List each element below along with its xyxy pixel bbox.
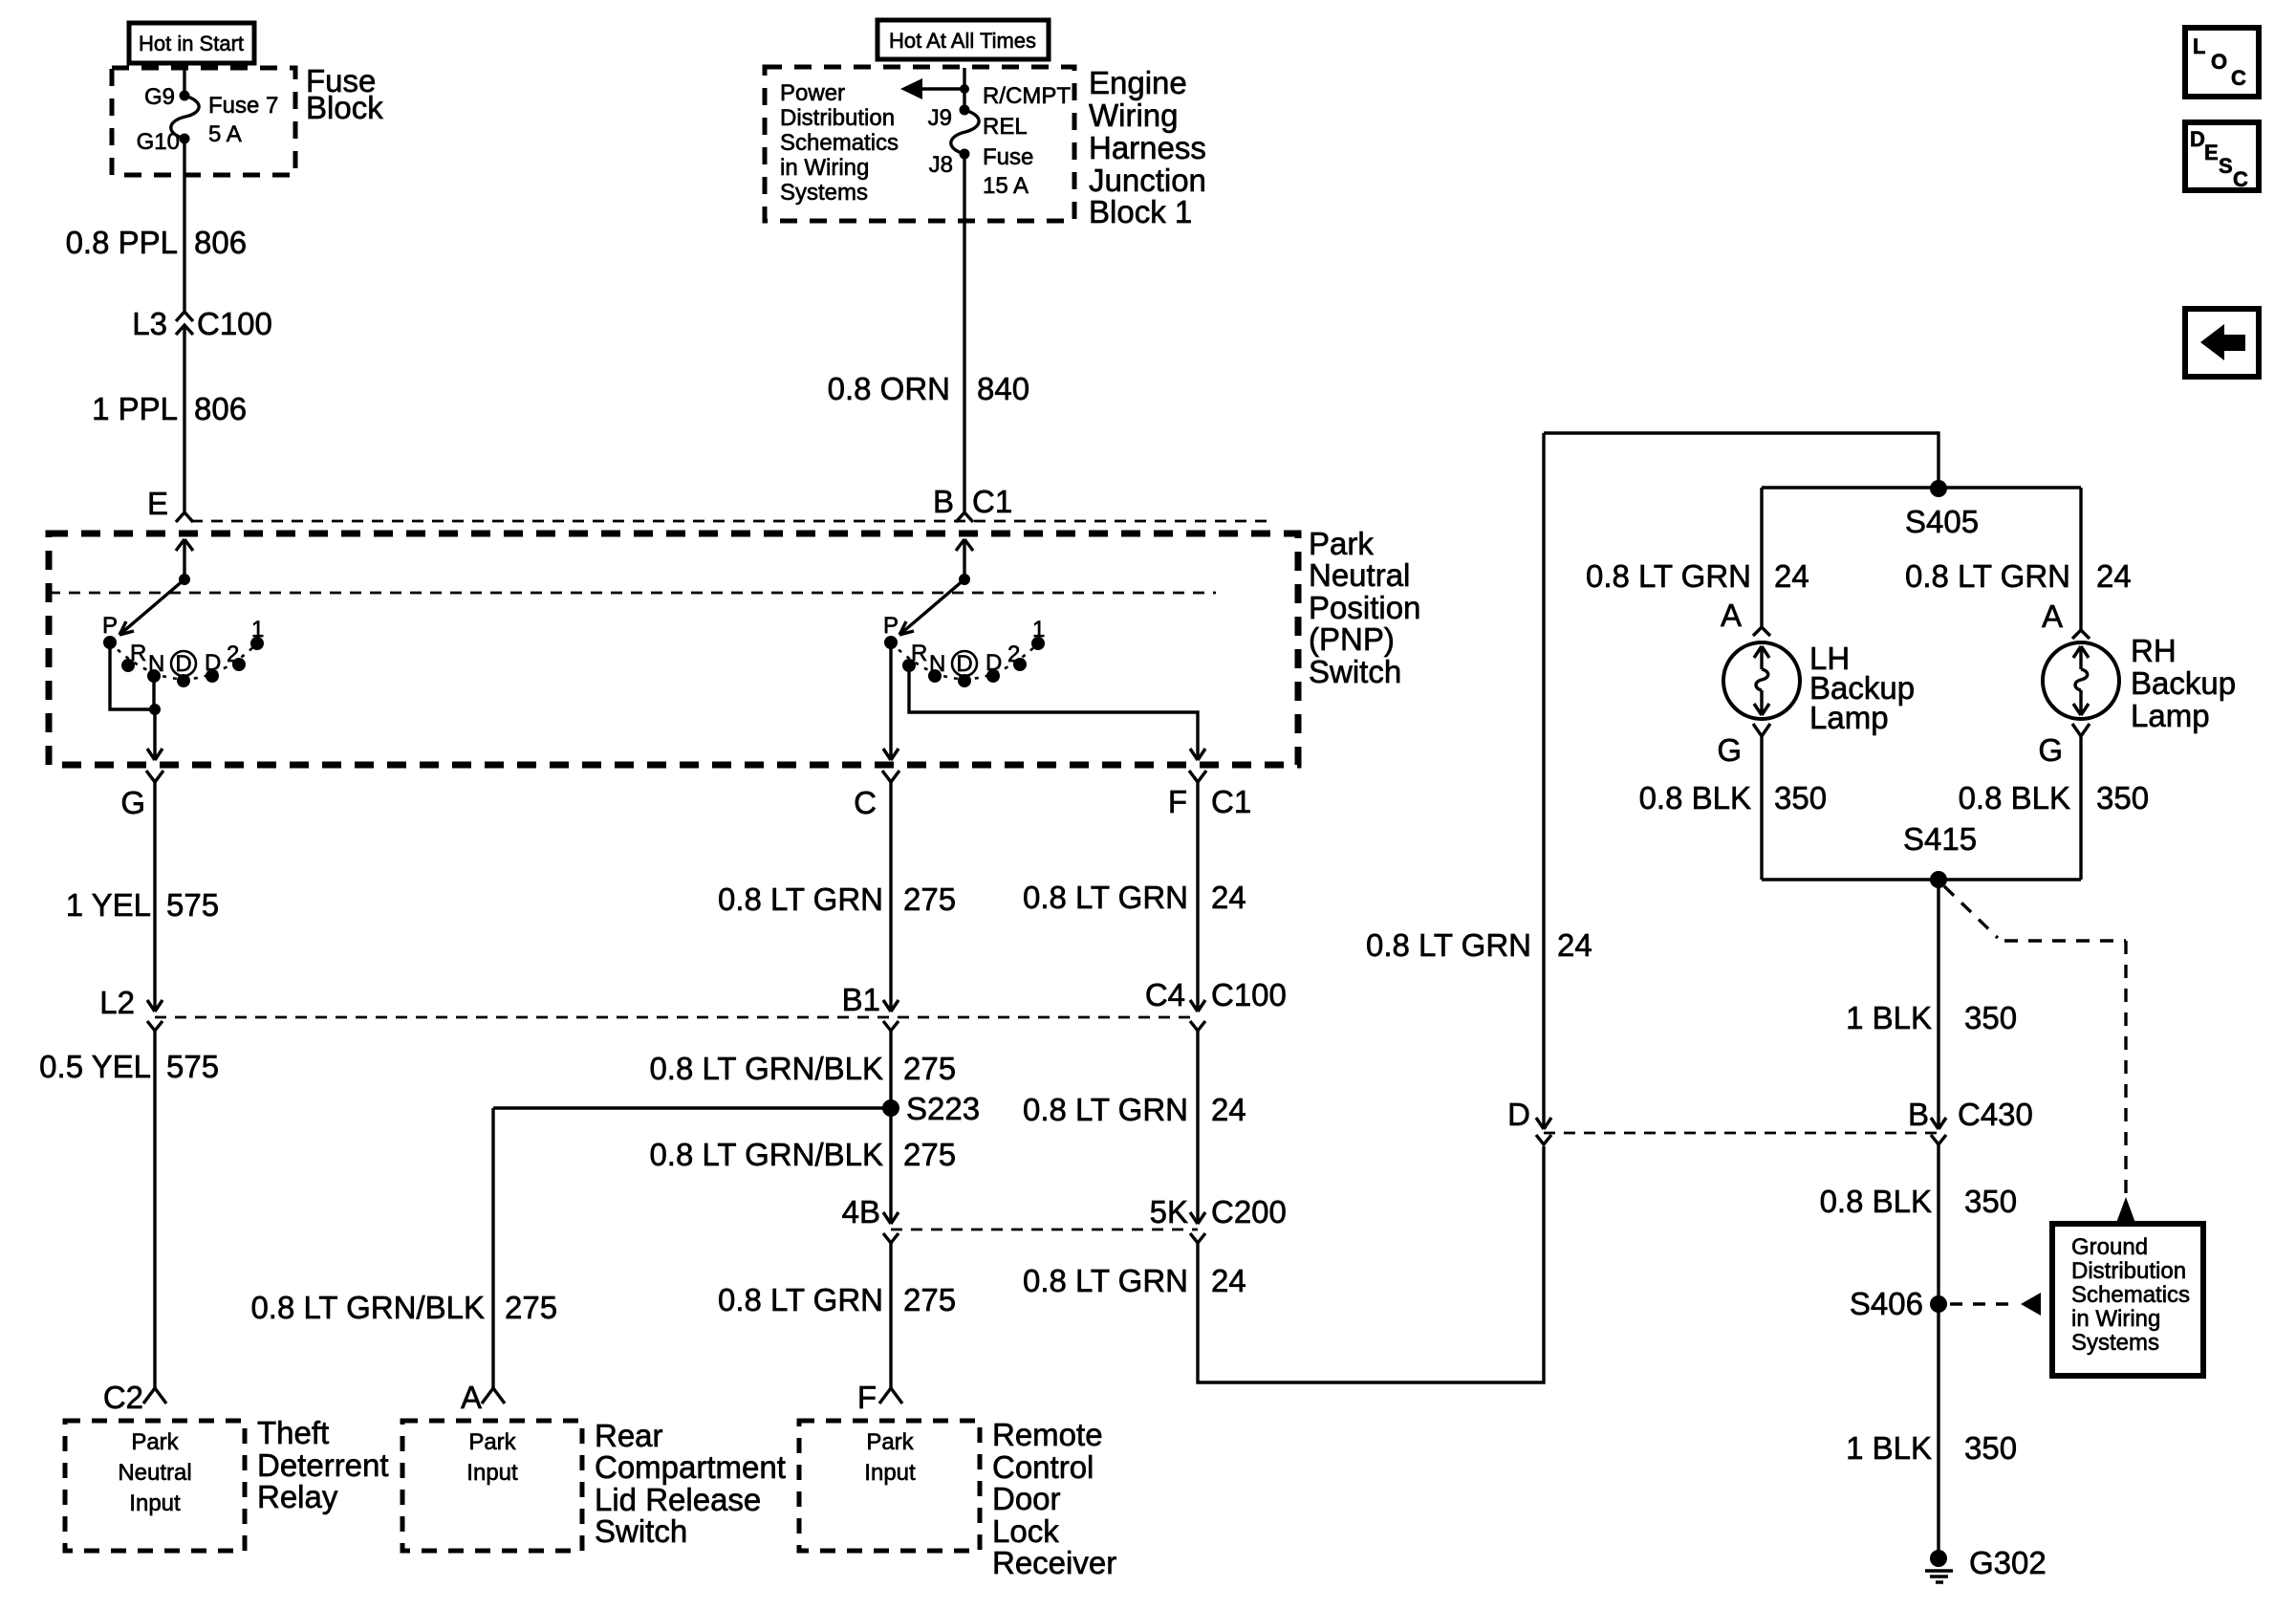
svg-text:D: D <box>956 651 972 677</box>
svg-text:in Wiring: in Wiring <box>780 155 869 181</box>
svg-text:24: 24 <box>1557 927 1592 963</box>
switch 2 terminal R <box>902 641 927 672</box>
wire label 0.8 BLK 350 (RH) <box>1959 780 2149 816</box>
svg-text:G10: G10 <box>137 129 180 155</box>
svg-text:Park: Park <box>1309 526 1374 561</box>
svg-text:L2: L2 <box>99 985 135 1020</box>
svg-text:Backup: Backup <box>2131 665 2236 701</box>
svg-text:L3: L3 <box>132 306 167 341</box>
svg-text:Deterrent: Deterrent <box>257 1447 389 1483</box>
svg-text:0.8 BLK: 0.8 BLK <box>1959 780 2070 816</box>
splice S406 <box>1850 1286 1947 1321</box>
splice S405 <box>1905 480 1979 539</box>
component label Engine Wiring Harness Junction Block 1 <box>1089 65 1206 229</box>
wire lamp branch top bus <box>1762 486 2081 489</box>
svg-text:Distribution: Distribution <box>780 105 895 131</box>
svg-text:R: R <box>130 641 146 666</box>
connector C100 terminal L2 label and chevron <box>99 985 162 1031</box>
svg-text:350: 350 <box>1964 1000 2017 1035</box>
svg-text:5K: 5K <box>1150 1194 1188 1229</box>
RH backup lamp <box>2043 642 2119 719</box>
wire P2 down with arrow to terminal C <box>883 642 899 760</box>
pin function label Park Input <box>466 1429 518 1486</box>
svg-text:0.8 ORN: 0.8 ORN <box>828 371 950 406</box>
connector C430 terminal B label and chevron <box>1908 1097 2033 1144</box>
svg-text:S406: S406 <box>1850 1286 1923 1321</box>
wire label 0.8 ORN 840 <box>828 371 1029 406</box>
switch 1 terminal arc <box>110 642 257 679</box>
svg-text:C430: C430 <box>1958 1097 2033 1132</box>
svg-text:0.8 BLK: 0.8 BLK <box>1820 1184 1932 1219</box>
svg-text:C1: C1 <box>972 484 1012 519</box>
svg-text:350: 350 <box>1964 1184 2017 1219</box>
terminal C chevron below PNP box <box>854 771 899 820</box>
fuse R/CMPT REL element (S-curve) <box>951 110 979 154</box>
terminal G10 <box>137 129 190 155</box>
fuse value label Fuse 7 / 5 A <box>208 93 278 147</box>
theft deterrent relay dashed box <box>65 1421 245 1551</box>
svg-text:Lock: Lock <box>992 1513 1059 1549</box>
terminal G chevron below PNP box <box>120 771 163 820</box>
wire label 0.8 LT GRN 24 (RH) <box>1905 558 2132 594</box>
note text Power Distribution Schematics in Wiring Systems <box>780 80 899 206</box>
wire label 1 PPL 806 <box>92 391 247 426</box>
svg-text:Schematics: Schematics <box>780 130 899 156</box>
dashed reference link from S406 to ground distribution note <box>1950 1293 2041 1316</box>
svg-text:Ground: Ground <box>2071 1234 2148 1260</box>
svg-text:0.5 YEL: 0.5 YEL <box>39 1049 151 1084</box>
svg-text:Input: Input <box>129 1490 181 1516</box>
svg-text:1: 1 <box>1032 617 1045 642</box>
wire RH lamp down to splice S415 <box>2079 736 2082 880</box>
svg-text:C1: C1 <box>1211 784 1251 819</box>
switch 2 terminal P <box>883 613 899 649</box>
switch 2 terminal arc <box>891 642 1038 679</box>
svg-text:0.8 LT GRN: 0.8 LT GRN <box>718 1282 883 1317</box>
wire label 1 BLK 350 <box>1846 1430 2017 1466</box>
svg-text:REL: REL <box>983 114 1028 140</box>
svg-text:575: 575 <box>166 1049 219 1084</box>
wire label 0.8 LT GRN/BLK 275 <box>250 1290 557 1325</box>
svg-text:G: G <box>2038 732 2063 768</box>
junction node of switch 1 output <box>149 704 161 715</box>
svg-text:2: 2 <box>1007 642 1020 667</box>
connector C100 dashed boundary line (L2 / B1 / C4) <box>155 1016 1198 1019</box>
svg-text:D: D <box>175 651 191 677</box>
wire C4 down to connector C200 terminal 5K <box>1190 1031 1205 1224</box>
svg-text:Systems: Systems <box>2071 1330 2159 1356</box>
svg-text:Neutral: Neutral <box>118 1460 191 1486</box>
wire left branch down to LH lamp terminal A <box>1760 488 1763 627</box>
svg-text:C: C <box>2231 66 2246 90</box>
RH lamp terminal A chevron <box>2042 598 2090 639</box>
wire 4B down to remote control door lock receiver <box>889 1243 892 1388</box>
component label Remote Control Door Lock Receiver <box>992 1417 1116 1580</box>
svg-text:Hot At All Times: Hot At All Times <box>889 29 1036 53</box>
component label Rear Compartment Lid Release Switch <box>595 1418 786 1549</box>
svg-text:Junction: Junction <box>1089 163 1206 198</box>
wire R2 down, right and down with arrow to terminal F <box>909 665 1205 760</box>
svg-text:0.8 LT GRN/BLK: 0.8 LT GRN/BLK <box>649 1051 883 1086</box>
svg-text:E: E <box>147 486 168 521</box>
switch 2 terminal 1 <box>1031 617 1045 650</box>
svg-text:0.8 LT GRN: 0.8 LT GRN <box>1586 558 1751 594</box>
terminal F chevron at door lock receiver <box>857 1380 902 1415</box>
wire 5K down, right along bottom to backup lamp feed <box>1198 1146 1544 1382</box>
component label Fuse Block <box>306 63 383 125</box>
wire label 0.8 LT GRN 275 <box>718 881 956 917</box>
svg-text:Harness: Harness <box>1089 130 1206 165</box>
switch 2 terminal D <box>986 650 1002 683</box>
wire label 0.8 BLK 350 <box>1820 1184 2017 1219</box>
svg-text:N: N <box>148 651 164 677</box>
svg-text:N: N <box>929 651 945 677</box>
connector C200 dashed boundary line (4B / 5K) <box>891 1229 1198 1231</box>
svg-text:0.8 LT GRN/BLK: 0.8 LT GRN/BLK <box>649 1137 883 1172</box>
svg-text:C: C <box>854 785 877 820</box>
svg-text:0.8 LT GRN: 0.8 LT GRN <box>718 881 883 917</box>
svg-text:L: L <box>2193 34 2205 58</box>
svg-text:F: F <box>1168 784 1187 819</box>
svg-text:E: E <box>2204 141 2219 164</box>
switch 1 wiper arm (to P) <box>119 579 184 635</box>
svg-text:Neutral: Neutral <box>1309 557 1410 593</box>
svg-text:G9: G9 <box>144 84 175 110</box>
wire label 0.8 LT GRN 24 <box>1023 1092 1246 1127</box>
wire G down to connector C100 terminal L2 <box>147 782 162 1012</box>
connector C430 dashed boundary line (D / B) <box>1544 1132 1939 1135</box>
LH lamp terminal A chevron <box>1721 598 1770 636</box>
fuse value label R/CMPT REL Fuse 15 A <box>983 83 1071 199</box>
wire right branch down to RH lamp terminal A <box>2079 488 2082 630</box>
wire label 0.8 LT GRN 24 <box>1023 880 1246 915</box>
ground distribution note box <box>2052 1224 2203 1376</box>
svg-text:0.8 LT GRN: 0.8 LT GRN <box>1905 558 2070 594</box>
svg-text:O: O <box>2211 50 2227 74</box>
connector C100 terminal B1 label and chevron <box>842 982 899 1031</box>
svg-text:(PNP): (PNP) <box>1309 621 1395 657</box>
svg-text:F: F <box>857 1380 877 1415</box>
remote control door lock receiver dashed box <box>799 1421 980 1551</box>
svg-text:Door: Door <box>992 1481 1061 1516</box>
svg-text:Switch: Switch <box>595 1513 687 1549</box>
wire LH lamp down to splice S415 <box>1760 736 1763 880</box>
page icon back arrow <box>2185 309 2259 377</box>
svg-text:0.8 LT GRN: 0.8 LT GRN <box>1023 1092 1188 1127</box>
svg-text:C: C <box>2233 167 2248 191</box>
switch 1 terminal R <box>121 641 146 672</box>
svg-text:Systems: Systems <box>780 180 868 206</box>
wire label 0.8 LT GRN/BLK 275 <box>649 1137 956 1172</box>
svg-text:A: A <box>2042 598 2063 634</box>
wire B1 down to splice S223 <box>889 1031 892 1108</box>
PNP terminal E chevron <box>147 486 193 522</box>
component label LH Backup Lamp <box>1809 641 1915 735</box>
svg-text:Engine: Engine <box>1089 65 1187 100</box>
svg-text:Lamp: Lamp <box>2131 698 2210 733</box>
svg-text:15 A: 15 A <box>983 173 1029 199</box>
switch 1 terminal D <box>205 650 221 683</box>
connector C1 boundary dashed line <box>191 520 1267 523</box>
svg-text:2: 2 <box>227 642 239 667</box>
svg-text:806: 806 <box>194 225 247 260</box>
connector C100 terminal C4 label and chevron <box>1145 977 1287 1031</box>
svg-text:Park: Park <box>468 1429 516 1455</box>
svg-text:806: 806 <box>194 391 247 426</box>
connector C200 terminal 4B label and chevron <box>842 1194 899 1243</box>
svg-text:Distribution: Distribution <box>2071 1258 2186 1284</box>
wire label 0.8 LT GRN 24 <box>1023 1263 1246 1298</box>
svg-text:Hot in Start: Hot in Start <box>139 32 244 55</box>
svg-text:C200: C200 <box>1211 1194 1287 1229</box>
wire F down to connector C100 terminal C4 <box>1190 782 1205 1012</box>
svg-text:24: 24 <box>1211 880 1246 915</box>
wire switch 1 output down with arrow to terminal G <box>147 709 162 760</box>
svg-text:0.8 LT GRN: 0.8 LT GRN <box>1023 1263 1188 1298</box>
terminal F chevron below PNP box (connector C1) <box>1168 771 1251 819</box>
node at power-distribution arrow <box>960 84 969 94</box>
svg-text:0.8 LT GRN: 0.8 LT GRN <box>1023 880 1188 915</box>
wire C down to connector C100 terminal B1 <box>883 782 899 1012</box>
wire terminal B down to splice S406 <box>1937 1144 1939 1304</box>
svg-text:575: 575 <box>166 887 219 923</box>
svg-text:B1: B1 <box>842 982 880 1017</box>
svg-text:D: D <box>1507 1097 1530 1132</box>
terminal C2 chevron at theft deterrent relay <box>103 1380 166 1415</box>
svg-text:5 A: 5 A <box>208 121 242 147</box>
svg-text:0.8 PPL: 0.8 PPL <box>66 225 178 260</box>
svg-text:350: 350 <box>1964 1430 2017 1466</box>
wire S406 down to ground G302 <box>1937 1304 1939 1559</box>
fuse block dashed box <box>112 68 295 175</box>
svg-text:24: 24 <box>1211 1092 1246 1127</box>
svg-text:G: G <box>120 785 145 820</box>
svg-text:1 YEL: 1 YEL <box>66 887 151 923</box>
terminal A chevron at lid release switch <box>461 1380 505 1415</box>
wire label 0.8 LT GRN 24 (LH) <box>1586 558 1809 594</box>
switch 1 terminal N <box>147 651 164 683</box>
connector C100 terminal L3 (inline double chevron) <box>132 306 272 341</box>
svg-text:275: 275 <box>903 881 956 917</box>
svg-text:Wiring: Wiring <box>1089 98 1179 133</box>
wire label 1 YEL 575 <box>66 887 219 923</box>
svg-text:275: 275 <box>505 1290 557 1325</box>
wire L2 down to theft deterrent relay <box>153 1031 156 1388</box>
terminal J9 <box>928 105 970 132</box>
wire S415 down to connector C430 terminal B <box>1931 880 1946 1129</box>
svg-text:Fuse 7: Fuse 7 <box>208 93 278 119</box>
svg-text:Rear: Rear <box>595 1418 663 1453</box>
switch 1 input arrow to terminal E <box>176 539 193 579</box>
LH backup lamp <box>1723 642 1800 719</box>
terminal J8 <box>929 149 970 179</box>
splice S223 <box>882 1091 980 1126</box>
svg-text:R: R <box>911 641 927 666</box>
wire label 0.8 LT GRN 24 <box>1366 927 1592 963</box>
svg-text:1: 1 <box>251 617 264 642</box>
svg-text:350: 350 <box>1774 780 1827 816</box>
svg-text:G: G <box>1717 732 1742 768</box>
component label RH Backup Lamp <box>2131 633 2236 733</box>
svg-text:Schematics: Schematics <box>2071 1282 2190 1308</box>
svg-text:Receiver: Receiver <box>992 1545 1116 1580</box>
switch 2 terminal N <box>928 651 945 683</box>
component label Theft Deterrent Relay <box>257 1415 389 1514</box>
svg-text:0.8 LT GRN: 0.8 LT GRN <box>1366 927 1531 963</box>
svg-text:D: D <box>2190 127 2205 151</box>
rear compartment lid release switch dashed box <box>402 1421 582 1551</box>
svg-text:D: D <box>205 650 221 676</box>
svg-text:1 PPL: 1 PPL <box>92 391 178 426</box>
svg-text:1 BLK: 1 BLK <box>1846 1430 1932 1466</box>
wire label 0.8 LT GRN 275 <box>718 1282 956 1317</box>
svg-text:J9: J9 <box>928 105 952 131</box>
arrow to power distribution schematics <box>900 78 964 99</box>
svg-text:Input: Input <box>864 1460 916 1486</box>
svg-text:Input: Input <box>466 1460 518 1486</box>
svg-text:G302: G302 <box>1969 1545 2047 1580</box>
svg-text:RH: RH <box>2131 633 2177 668</box>
wire J8 down to PNP terminal B <box>963 154 965 512</box>
switch 2 pivot node <box>959 574 970 585</box>
svg-text:P: P <box>102 613 118 639</box>
svg-text:4B: 4B <box>842 1194 880 1229</box>
svg-text:C100: C100 <box>197 306 272 341</box>
svg-text:Compartment: Compartment <box>595 1449 786 1485</box>
power source label "Hot in Start" <box>129 23 254 63</box>
svg-text:S: S <box>2219 154 2233 178</box>
svg-text:350: 350 <box>2096 780 2149 816</box>
connector C200 terminal 5K label and chevron <box>1150 1194 1287 1243</box>
wire P1 down and over to junction <box>110 642 155 709</box>
switch 2 input arrow to terminal B <box>956 539 973 579</box>
wire label 0.8 BLK 350 (LH) <box>1639 780 1827 816</box>
svg-text:Switch: Switch <box>1309 654 1401 689</box>
svg-text:R/CMPT: R/CMPT <box>983 83 1071 109</box>
wire from rear compartment switch to splice S223 <box>493 1106 891 1109</box>
svg-text:24: 24 <box>1774 558 1809 594</box>
page icon DESC <box>2185 122 2259 191</box>
LH lamp terminal G chevron <box>1717 724 1770 768</box>
wire from junction block top to J9 <box>963 68 965 110</box>
svg-text:P: P <box>883 613 899 639</box>
svg-text:1 BLK: 1 BLK <box>1846 1000 1932 1035</box>
svg-text:Park: Park <box>866 1429 914 1455</box>
ground G302 <box>1925 1545 2047 1582</box>
fuse F7 element (S-curve) <box>171 96 199 139</box>
svg-text:Block: Block <box>306 90 383 125</box>
switch 1 pivot node <box>179 574 190 585</box>
wire S223 down to connector C200 terminal 4B <box>883 1108 899 1224</box>
wire from fuse block top to terminal G9 <box>183 69 185 96</box>
power source label "Hot At All Times" <box>877 20 1049 59</box>
wire label 0.8 LT GRN/BLK 275 <box>649 1051 956 1086</box>
svg-text:S415: S415 <box>1903 821 1977 857</box>
svg-text:S223: S223 <box>906 1091 980 1126</box>
component label Park Neutral Position (PNP) Switch <box>1309 526 1420 689</box>
svg-text:C4: C4 <box>1145 977 1185 1012</box>
connector C430 terminal D label and chevron <box>1507 1097 1551 1144</box>
switch 2 terminal D-circled <box>952 651 977 687</box>
svg-text:24: 24 <box>2096 558 2132 594</box>
switch 2 wiper arm (to P) <box>899 579 964 635</box>
svg-text:B: B <box>1908 1097 1929 1132</box>
switch 1 terminal D-circled <box>171 651 196 687</box>
switch 1 terminal 2 <box>227 642 246 671</box>
wire G10 down to connector C100 <box>183 139 185 311</box>
splice S415 <box>1903 821 1977 888</box>
wire terminal D up to lamp feed branch <box>1536 433 1551 1129</box>
svg-text:J8: J8 <box>929 152 953 178</box>
switch 1 terminal P <box>102 613 118 649</box>
svg-text:Block 1: Block 1 <box>1089 194 1192 229</box>
wire lamp branch bottom bus <box>1762 878 2081 881</box>
svg-text:Park: Park <box>131 1429 179 1455</box>
svg-text:A: A <box>461 1380 482 1415</box>
pin function label Park Input <box>864 1429 916 1486</box>
switch 2 terminal 2 <box>1007 642 1027 671</box>
wire label 0.5 YEL 575 <box>39 1049 219 1084</box>
svg-text:A: A <box>1721 598 1742 633</box>
engine wiring harness junction block 1 dashed box <box>765 67 1074 221</box>
switch 1 terminal 1 <box>250 617 264 650</box>
pin function label Park Neutral Input <box>118 1429 191 1516</box>
terminal G9 <box>144 84 190 110</box>
svg-text:Control: Control <box>992 1449 1094 1485</box>
svg-text:S405: S405 <box>1905 504 1979 539</box>
wire C100 down to PNP terminal E <box>183 325 185 512</box>
page icon LOC <box>2185 28 2259 97</box>
svg-text:C2: C2 <box>103 1380 143 1415</box>
svg-text:275: 275 <box>903 1282 956 1317</box>
svg-text:Position: Position <box>1309 590 1420 625</box>
svg-text:Lid Release: Lid Release <box>595 1482 761 1517</box>
svg-text:275: 275 <box>903 1051 956 1086</box>
svg-text:C100: C100 <box>1211 977 1287 1012</box>
svg-text:B: B <box>933 484 954 519</box>
svg-text:Theft: Theft <box>257 1415 329 1450</box>
dashed reference link from S415 to ground distribution note <box>1944 886 2135 1223</box>
wire N1 down to junction <box>152 676 155 709</box>
wire top feed across to splice S405 <box>1544 433 1939 489</box>
svg-text:Remote: Remote <box>992 1417 1103 1452</box>
wire label 1 BLK 350 <box>1846 1000 2017 1035</box>
wire from S223 branch down to rear compartment lid release switch <box>491 1108 494 1388</box>
svg-text:0.8 LT GRN/BLK: 0.8 LT GRN/BLK <box>250 1290 485 1325</box>
svg-text:0.8 BLK: 0.8 BLK <box>1639 780 1751 816</box>
svg-text:Lamp: Lamp <box>1809 700 1889 735</box>
PNP switch dashed box <box>49 533 1298 765</box>
svg-text:Relay: Relay <box>257 1479 338 1514</box>
svg-text:Power: Power <box>780 80 845 106</box>
svg-text:275: 275 <box>903 1137 956 1172</box>
inner dashed line inside PNP switch <box>49 592 1216 595</box>
svg-text:D: D <box>986 650 1002 676</box>
RH lamp terminal G chevron <box>2038 724 2090 768</box>
svg-text:24: 24 <box>1211 1263 1246 1298</box>
svg-text:in Wiring: in Wiring <box>2071 1306 2160 1332</box>
svg-text:840: 840 <box>977 371 1029 406</box>
svg-text:Fuse: Fuse <box>983 144 1033 170</box>
PNP terminal B chevron (connector C1) <box>933 484 1012 522</box>
wire label 0.8 PPL 806 <box>66 225 247 260</box>
